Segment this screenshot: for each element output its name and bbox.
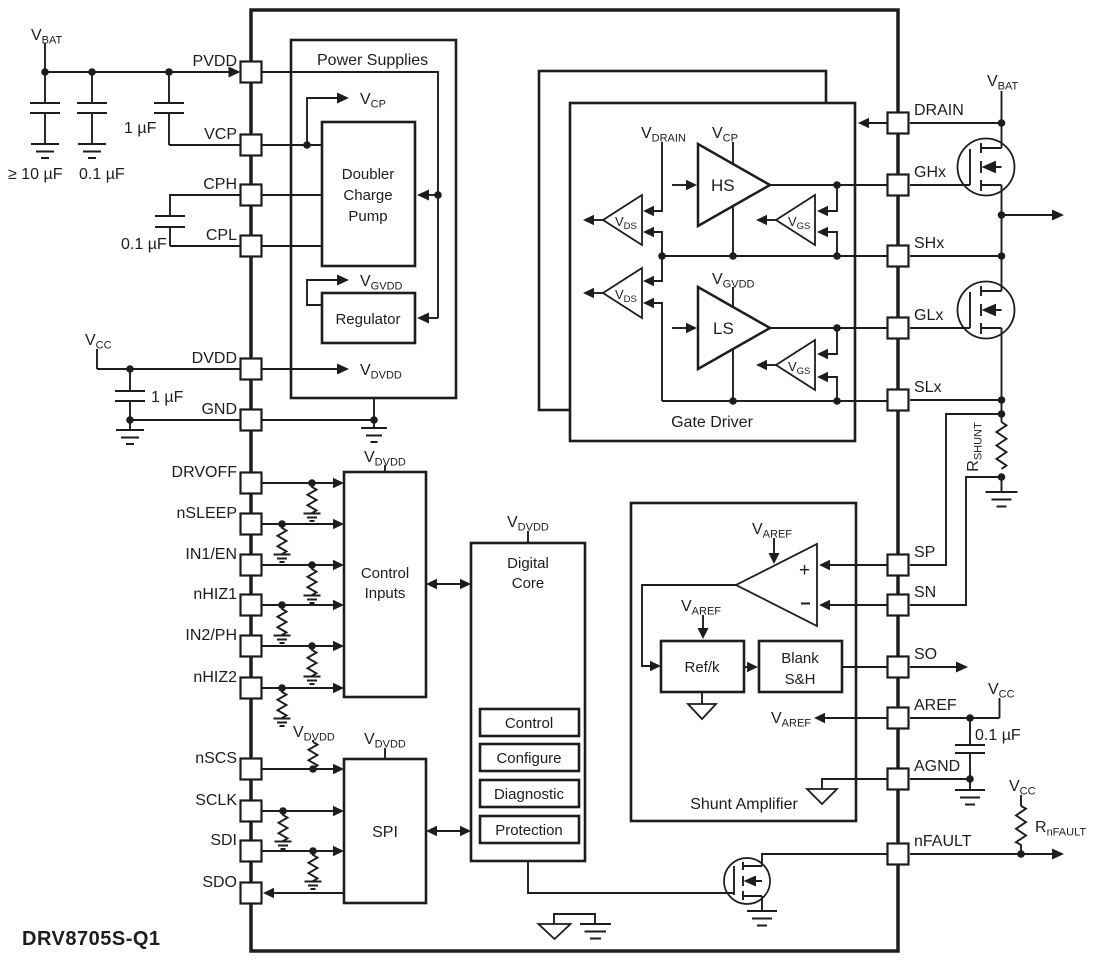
svg-text:SP: SP bbox=[914, 544, 935, 561]
wire SPI to Digital Core (bidirectional) bbox=[426, 826, 471, 836]
pin IN2/PH bbox=[185, 627, 261, 657]
block Regulator bbox=[322, 293, 415, 343]
svg-text:0.1 µF: 0.1 µF bbox=[975, 727, 1021, 744]
net VCP label (gate driver) bbox=[712, 125, 738, 256]
node VCC at RnFAULT bbox=[1009, 778, 1036, 806]
ground Q3 source bbox=[747, 911, 777, 926]
arrow SO output bbox=[910, 662, 968, 673]
arrow into charge pump bbox=[417, 190, 429, 201]
ground DRVOFF bbox=[304, 514, 321, 522]
capacitor C3 1uF bbox=[124, 72, 184, 145]
comparator VGS low-side bbox=[776, 340, 815, 390]
pin IN1/EN bbox=[185, 546, 261, 576]
junction SLx bbox=[998, 396, 1006, 404]
svg-text:Control: Control bbox=[361, 565, 409, 582]
block Power Supplies bbox=[291, 40, 456, 398]
svg-text:1 µF: 1 µF bbox=[151, 389, 184, 406]
wire C4 to CPL pin bbox=[170, 245, 240, 247]
wire SLx to VGS LS lower input bbox=[817, 372, 837, 401]
comparator VGS high-side bbox=[776, 195, 815, 245]
block gate driver shadow bbox=[539, 71, 826, 410]
wire Digital Core to fault MOSFET gate bbox=[528, 861, 734, 893]
wire nHIZ1 to control inputs bbox=[262, 600, 344, 610]
ground IN2/PH bbox=[304, 677, 321, 685]
junction rail-DCP bbox=[434, 191, 442, 199]
arrow VDRAIN into VDS comparator bbox=[643, 206, 654, 216]
junction SHx-VGS bbox=[833, 252, 841, 260]
wire DRAIN pin to gate driver bbox=[858, 118, 888, 128]
junction nFAULT-pullup bbox=[1017, 850, 1025, 858]
op-amp shunt comparator bbox=[736, 544, 817, 626]
op-amp LS driver bbox=[698, 287, 770, 369]
junction C5-GND wire bbox=[126, 416, 134, 424]
ground SDI bbox=[305, 882, 322, 890]
svg-text:+: + bbox=[799, 560, 810, 581]
svg-text:SPI: SPI bbox=[372, 824, 398, 841]
svg-text:0.1 µF: 0.1 µF bbox=[121, 236, 167, 253]
transistor Q3 nFAULT open-drain NMOS bbox=[724, 858, 770, 904]
svg-text:Control: Control bbox=[505, 715, 553, 732]
comparator VDS low-side bbox=[603, 268, 642, 318]
svg-text:HS: HS bbox=[711, 176, 735, 195]
junction nSCS pullup bbox=[309, 765, 317, 773]
wire SLx pin to Q2 source bbox=[910, 399, 1002, 401]
arrow Ref/k to Blank S&H bbox=[744, 662, 758, 672]
ground RSHUNT bbox=[986, 477, 1018, 507]
junction SLx-VGS bbox=[833, 397, 841, 405]
capacitor C1 >=10uF bbox=[8, 72, 63, 183]
pin nFAULT bbox=[888, 833, 972, 865]
svg-text:SDO: SDO bbox=[202, 874, 237, 891]
wire AGND pin to analog ground bbox=[822, 779, 888, 789]
arrow into PVDD pin bbox=[229, 67, 241, 78]
block Diagnostic bbox=[480, 780, 579, 807]
junction GHx feedback bbox=[833, 181, 841, 189]
wire Q3 drain to nFAULT pin bbox=[762, 854, 888, 866]
block Gate Driver bbox=[570, 103, 855, 441]
junction SCLK pulldown bbox=[279, 807, 287, 815]
node VBAT (right) bbox=[987, 73, 1019, 123]
capacitor C2 0.1uF bbox=[77, 72, 125, 183]
svg-text:GHx: GHx bbox=[914, 164, 946, 181]
svg-text:Diagnostic: Diagnostic bbox=[494, 786, 565, 803]
net VGVDD output arrow bbox=[307, 273, 403, 305]
arrow LS input bbox=[672, 323, 697, 333]
block Configure bbox=[480, 744, 579, 771]
svg-text:Configure: Configure bbox=[496, 750, 561, 767]
wire VBAT bus to PVDD bbox=[45, 71, 238, 73]
junction DRVOFF pulldown bbox=[308, 479, 316, 487]
net VDVDD supply Digital Core bbox=[507, 514, 549, 543]
wire IN2/PH to control inputs bbox=[262, 641, 344, 651]
pin DRVOFF bbox=[172, 464, 262, 494]
ground nHIZ1 bbox=[274, 636, 291, 644]
wire IN1/EN to control inputs bbox=[262, 560, 344, 570]
svg-text:CPL: CPL bbox=[206, 227, 237, 244]
wire SPI to SDO pin bbox=[263, 888, 344, 898]
pin DVDD bbox=[192, 350, 262, 380]
wire nSCS to SPI bbox=[262, 764, 344, 774]
wire GND pin to internal ground bbox=[262, 419, 374, 421]
transistor Q2 low-side NMOS bbox=[958, 282, 1015, 339]
ground C2 bbox=[78, 144, 106, 158]
svg-text:Protection: Protection bbox=[495, 822, 563, 839]
op-amp HS driver bbox=[698, 144, 770, 226]
svg-text:DRVOFF: DRVOFF bbox=[172, 464, 238, 481]
junction GLx feedback bbox=[833, 324, 841, 332]
svg-text:Pump: Pump bbox=[348, 208, 387, 225]
capacitor C5 1uF bbox=[115, 369, 184, 420]
junction phase output bbox=[998, 211, 1006, 219]
svg-text:S&H: S&H bbox=[785, 671, 816, 688]
wire AREF pin to VCC bbox=[910, 717, 1000, 719]
svg-text:Charge: Charge bbox=[343, 187, 392, 204]
chip outline DRV8705S-Q1 bbox=[251, 10, 898, 951]
wire SHx to VDS HS lower input bbox=[643, 227, 662, 256]
wire Q3 source to ground bbox=[761, 896, 763, 911]
pin nSLEEP bbox=[177, 505, 262, 535]
pin SDI bbox=[210, 832, 261, 862]
ground C5 bbox=[116, 420, 144, 444]
wire HS output to GHx bbox=[770, 184, 888, 186]
arrow HS input bbox=[672, 180, 697, 190]
wire VCC to DVDD pin bbox=[97, 368, 240, 370]
wire GLx to VGS LS upper input bbox=[817, 328, 837, 359]
svg-text:IN1/EN: IN1/EN bbox=[185, 546, 237, 563]
svg-text:Power Supplies: Power Supplies bbox=[317, 52, 428, 69]
wire Q1 source to Q2 drain bbox=[1001, 185, 1003, 291]
pin SCLK bbox=[195, 792, 261, 822]
wire SLx internal bbox=[662, 400, 888, 402]
pin AGND bbox=[888, 758, 961, 790]
wire SP pin to comparator plus bbox=[819, 560, 888, 570]
wire CPH pin to C4 bbox=[170, 195, 240, 216]
junction AGND-C6 bbox=[966, 775, 974, 783]
wire nHIZ2 to control inputs bbox=[262, 683, 344, 693]
svg-text:CPH: CPH bbox=[203, 176, 237, 193]
wire DRAIN pin to VBAT bbox=[910, 122, 1002, 124]
ground SCLK bbox=[275, 842, 292, 850]
pin GLx bbox=[888, 307, 944, 339]
wire C3 to VCP pin bbox=[169, 144, 240, 146]
svg-text:Regulator: Regulator bbox=[335, 311, 400, 328]
svg-text:Doubler: Doubler bbox=[342, 166, 395, 183]
resistor RnFAULT pullup bbox=[1016, 806, 1086, 854]
junction AREF-C6 bbox=[966, 714, 974, 722]
wire AGND pin to C6 bbox=[910, 778, 970, 780]
svg-text:nFAULT: nFAULT bbox=[914, 833, 972, 850]
wire nFAULT pin output bbox=[910, 849, 1064, 860]
wire Control Inputs to Digital Core (bidirectional) bbox=[426, 579, 471, 589]
net VDVDD supply Control Inputs bbox=[364, 449, 406, 472]
pin nSCS bbox=[195, 750, 261, 780]
svg-text:GND: GND bbox=[201, 401, 237, 418]
junction nHIZ1 pulldown bbox=[278, 601, 286, 609]
wire SHx internal bbox=[662, 255, 888, 257]
wire CPL pin to charge pump bbox=[262, 245, 322, 247]
transistor Q1 high-side NMOS bbox=[958, 139, 1015, 196]
svg-text:LS: LS bbox=[713, 319, 734, 338]
wire GHx to VGS HS upper input bbox=[817, 185, 837, 216]
wire rail to regulator bbox=[429, 317, 438, 319]
resistor nHIZ1 pulldown bbox=[278, 605, 287, 636]
resistor DRVOFF pulldown bbox=[308, 483, 317, 514]
block SPI bbox=[344, 759, 426, 903]
junction SP sense bbox=[998, 410, 1006, 418]
wire VBAT to Q1 drain bbox=[1001, 123, 1003, 148]
node VCC at AREF bbox=[988, 681, 1015, 718]
net VDVDD output arrow bbox=[262, 362, 402, 382]
wire GLx pin to Q2 gate bbox=[910, 327, 970, 329]
block Doubler Charge Pump bbox=[322, 122, 415, 266]
svg-text:AGND: AGND bbox=[914, 758, 960, 775]
ground AGND external bbox=[955, 779, 985, 805]
wire nSLEEP to control inputs bbox=[262, 519, 344, 529]
wire power supplies block to ground bbox=[373, 398, 375, 420]
svg-text:AREF: AREF bbox=[914, 697, 957, 714]
wire DRVOFF to control inputs bbox=[262, 478, 344, 488]
pin nHIZ1 bbox=[193, 586, 261, 616]
net VGVDD label (gate driver) bbox=[712, 271, 755, 401]
net VAREF output to AREF pin bbox=[771, 710, 888, 730]
ground nHIZ2 bbox=[274, 719, 291, 727]
junction SHx-phase bbox=[998, 252, 1006, 260]
ground nSLEEP bbox=[274, 555, 291, 563]
pin CPL bbox=[206, 227, 262, 257]
capacitor C6 0.1uF bbox=[955, 718, 1021, 779]
svg-text:Inputs: Inputs bbox=[365, 585, 406, 602]
svg-text:SDI: SDI bbox=[210, 832, 237, 849]
pin SLx bbox=[888, 379, 942, 411]
svg-text:DRAIN: DRAIN bbox=[914, 102, 964, 119]
pin CPH bbox=[203, 176, 261, 206]
svg-text:1 µF: 1 µF bbox=[124, 120, 157, 137]
svg-text:Blank: Blank bbox=[781, 650, 819, 667]
wire SHx to VGS HS lower input bbox=[817, 227, 837, 256]
junction VCP bbox=[303, 141, 311, 149]
svg-text:Shunt Amplifier: Shunt Amplifier bbox=[690, 796, 798, 813]
wire Q2 source to SLx bbox=[1001, 328, 1003, 422]
wire SDI to SPI bbox=[262, 846, 344, 856]
arrow into regulator bbox=[417, 313, 429, 324]
svg-text:Ref/k: Ref/k bbox=[684, 659, 720, 676]
wire CPH pin to charge pump bbox=[262, 194, 322, 196]
svg-text:PVDD: PVDD bbox=[193, 53, 237, 70]
pin DRAIN bbox=[888, 102, 964, 134]
svg-text:IN2/PH: IN2/PH bbox=[185, 627, 237, 644]
junction SLx-VGVDD line bbox=[729, 397, 737, 405]
block Ref/k bbox=[661, 641, 744, 692]
block Protection bbox=[480, 816, 579, 843]
junction IN2/PH pulldown bbox=[308, 642, 316, 650]
junction VBAT-C3 bbox=[165, 68, 173, 76]
svg-text:nSCS: nSCS bbox=[195, 750, 237, 767]
arrow phase output bbox=[1002, 210, 1065, 221]
resistor SCLK pulldown bbox=[279, 811, 288, 842]
svg-text:SLx: SLx bbox=[914, 379, 942, 396]
ground AGND (open triangle) bbox=[807, 789, 837, 804]
pin SHx bbox=[888, 235, 945, 267]
svg-text:nHIZ1: nHIZ1 bbox=[193, 586, 237, 603]
resistor SDI pulldown bbox=[309, 851, 318, 882]
net VDVDD pullup nSCS bbox=[293, 724, 335, 744]
net VCP output arrow bbox=[307, 91, 386, 145]
net VAREF into comparator bbox=[752, 521, 792, 564]
comparator VDS high-side bbox=[603, 195, 642, 245]
wire SP sense line bbox=[910, 414, 1002, 565]
wire Blank S&H to SO pin bbox=[842, 666, 888, 668]
ground IN1/EN bbox=[304, 596, 321, 604]
junction nHIZ2 pulldown bbox=[278, 684, 286, 692]
junction VBAT-drain bbox=[998, 119, 1006, 127]
ground C1 bbox=[31, 144, 59, 158]
ground internal GND bbox=[361, 420, 387, 442]
wire SCLK to SPI bbox=[262, 806, 344, 816]
wire rail to charge pump bbox=[429, 194, 438, 196]
junction SHx-VDS bbox=[658, 252, 666, 260]
junction GND bbox=[370, 416, 378, 424]
pin SN bbox=[888, 584, 937, 616]
capacitor C4 0.1uF bbox=[121, 216, 185, 253]
svg-text:SO: SO bbox=[914, 646, 937, 663]
ground tie AGND-GND bbox=[539, 914, 612, 939]
svg-text:GLx: GLx bbox=[914, 307, 943, 324]
arrow VDS HS output bbox=[583, 215, 603, 225]
svg-text:SHx: SHx bbox=[914, 235, 944, 252]
wire GHx pin to Q1 gate bbox=[910, 184, 970, 186]
junction VBAT-C2 bbox=[88, 68, 96, 76]
pin SDO bbox=[202, 874, 261, 904]
svg-text:nSLEEP: nSLEEP bbox=[177, 505, 237, 522]
svg-text:Core: Core bbox=[512, 575, 545, 592]
resistor IN2/PH pulldown bbox=[308, 646, 317, 677]
svg-text:SCLK: SCLK bbox=[195, 792, 237, 809]
net VDVDD supply SPI bbox=[364, 731, 406, 759]
wire comparator output to Ref/k bbox=[642, 585, 736, 671]
junction VCC-C5 bbox=[126, 365, 134, 373]
svg-text:Gate Driver: Gate Driver bbox=[671, 414, 753, 431]
wire SHx to VDS LS upper input bbox=[643, 256, 662, 286]
arrow VGS LS output bbox=[756, 360, 776, 370]
node VBAT (left) bbox=[31, 27, 63, 72]
pin PVDD bbox=[193, 53, 262, 83]
resistor nSLEEP pulldown bbox=[278, 524, 287, 555]
svg-text:DVDD: DVDD bbox=[192, 350, 237, 367]
ground Ref/k (open triangle) bbox=[688, 692, 716, 719]
junction SDI pulldown bbox=[309, 847, 317, 855]
arrow VDS LS output bbox=[583, 288, 603, 298]
pin AREF bbox=[888, 697, 957, 729]
wire C5 to GND pin bbox=[130, 419, 240, 421]
block Control (digital core) bbox=[480, 709, 579, 736]
resistor nSCS pullup bbox=[309, 742, 318, 769]
junction SN sense bbox=[998, 473, 1006, 481]
block Digital Core bbox=[471, 543, 585, 861]
svg-text:≥ 10 µF: ≥ 10 µF bbox=[8, 166, 63, 183]
wire VCP pin to charge pump bbox=[262, 144, 322, 146]
pin SO bbox=[888, 646, 938, 678]
wire SLx to VDS LS lower input bbox=[643, 298, 662, 401]
node VCC (left) bbox=[85, 332, 112, 369]
net VAREF into Ref/k bbox=[681, 598, 721, 639]
wire PVDD internal rail bbox=[262, 72, 438, 318]
svg-text:SN: SN bbox=[914, 584, 936, 601]
resistor RSHUNT bbox=[965, 422, 1007, 472]
pin VCP bbox=[204, 126, 261, 156]
pin GND bbox=[201, 401, 261, 431]
junction nSLEEP pulldown bbox=[278, 520, 286, 528]
arrow VGS HS output bbox=[756, 215, 776, 225]
svg-text:VCP: VCP bbox=[204, 126, 237, 143]
block Control Inputs bbox=[344, 472, 426, 697]
wire SN sense line bbox=[910, 477, 1002, 605]
resistor nHIZ2 pulldown bbox=[278, 688, 287, 719]
junction IN1/EN pulldown bbox=[308, 561, 316, 569]
resistor IN1/EN pulldown bbox=[308, 565, 317, 596]
junction VBAT-C1 bbox=[41, 68, 49, 76]
wire SHx pin to phase node bbox=[910, 255, 1002, 257]
pin GHx bbox=[888, 164, 947, 196]
block Shunt Amplifier bbox=[631, 503, 856, 821]
pin SP bbox=[888, 544, 936, 576]
block Blank S&H bbox=[759, 641, 842, 692]
wire SN pin to comparator minus bbox=[819, 600, 888, 610]
junction SHx-VCP line bbox=[729, 252, 737, 260]
svg-text:DRV8705S-Q1: DRV8705S-Q1 bbox=[22, 928, 161, 950]
pin nHIZ2 bbox=[193, 669, 261, 699]
svg-text:Digital: Digital bbox=[507, 555, 549, 572]
svg-text:nHIZ2: nHIZ2 bbox=[193, 669, 237, 686]
net VDRAIN label bbox=[641, 125, 686, 211]
svg-text:0.1 µF: 0.1 µF bbox=[79, 166, 125, 183]
wire LS output to GLx bbox=[770, 327, 888, 329]
